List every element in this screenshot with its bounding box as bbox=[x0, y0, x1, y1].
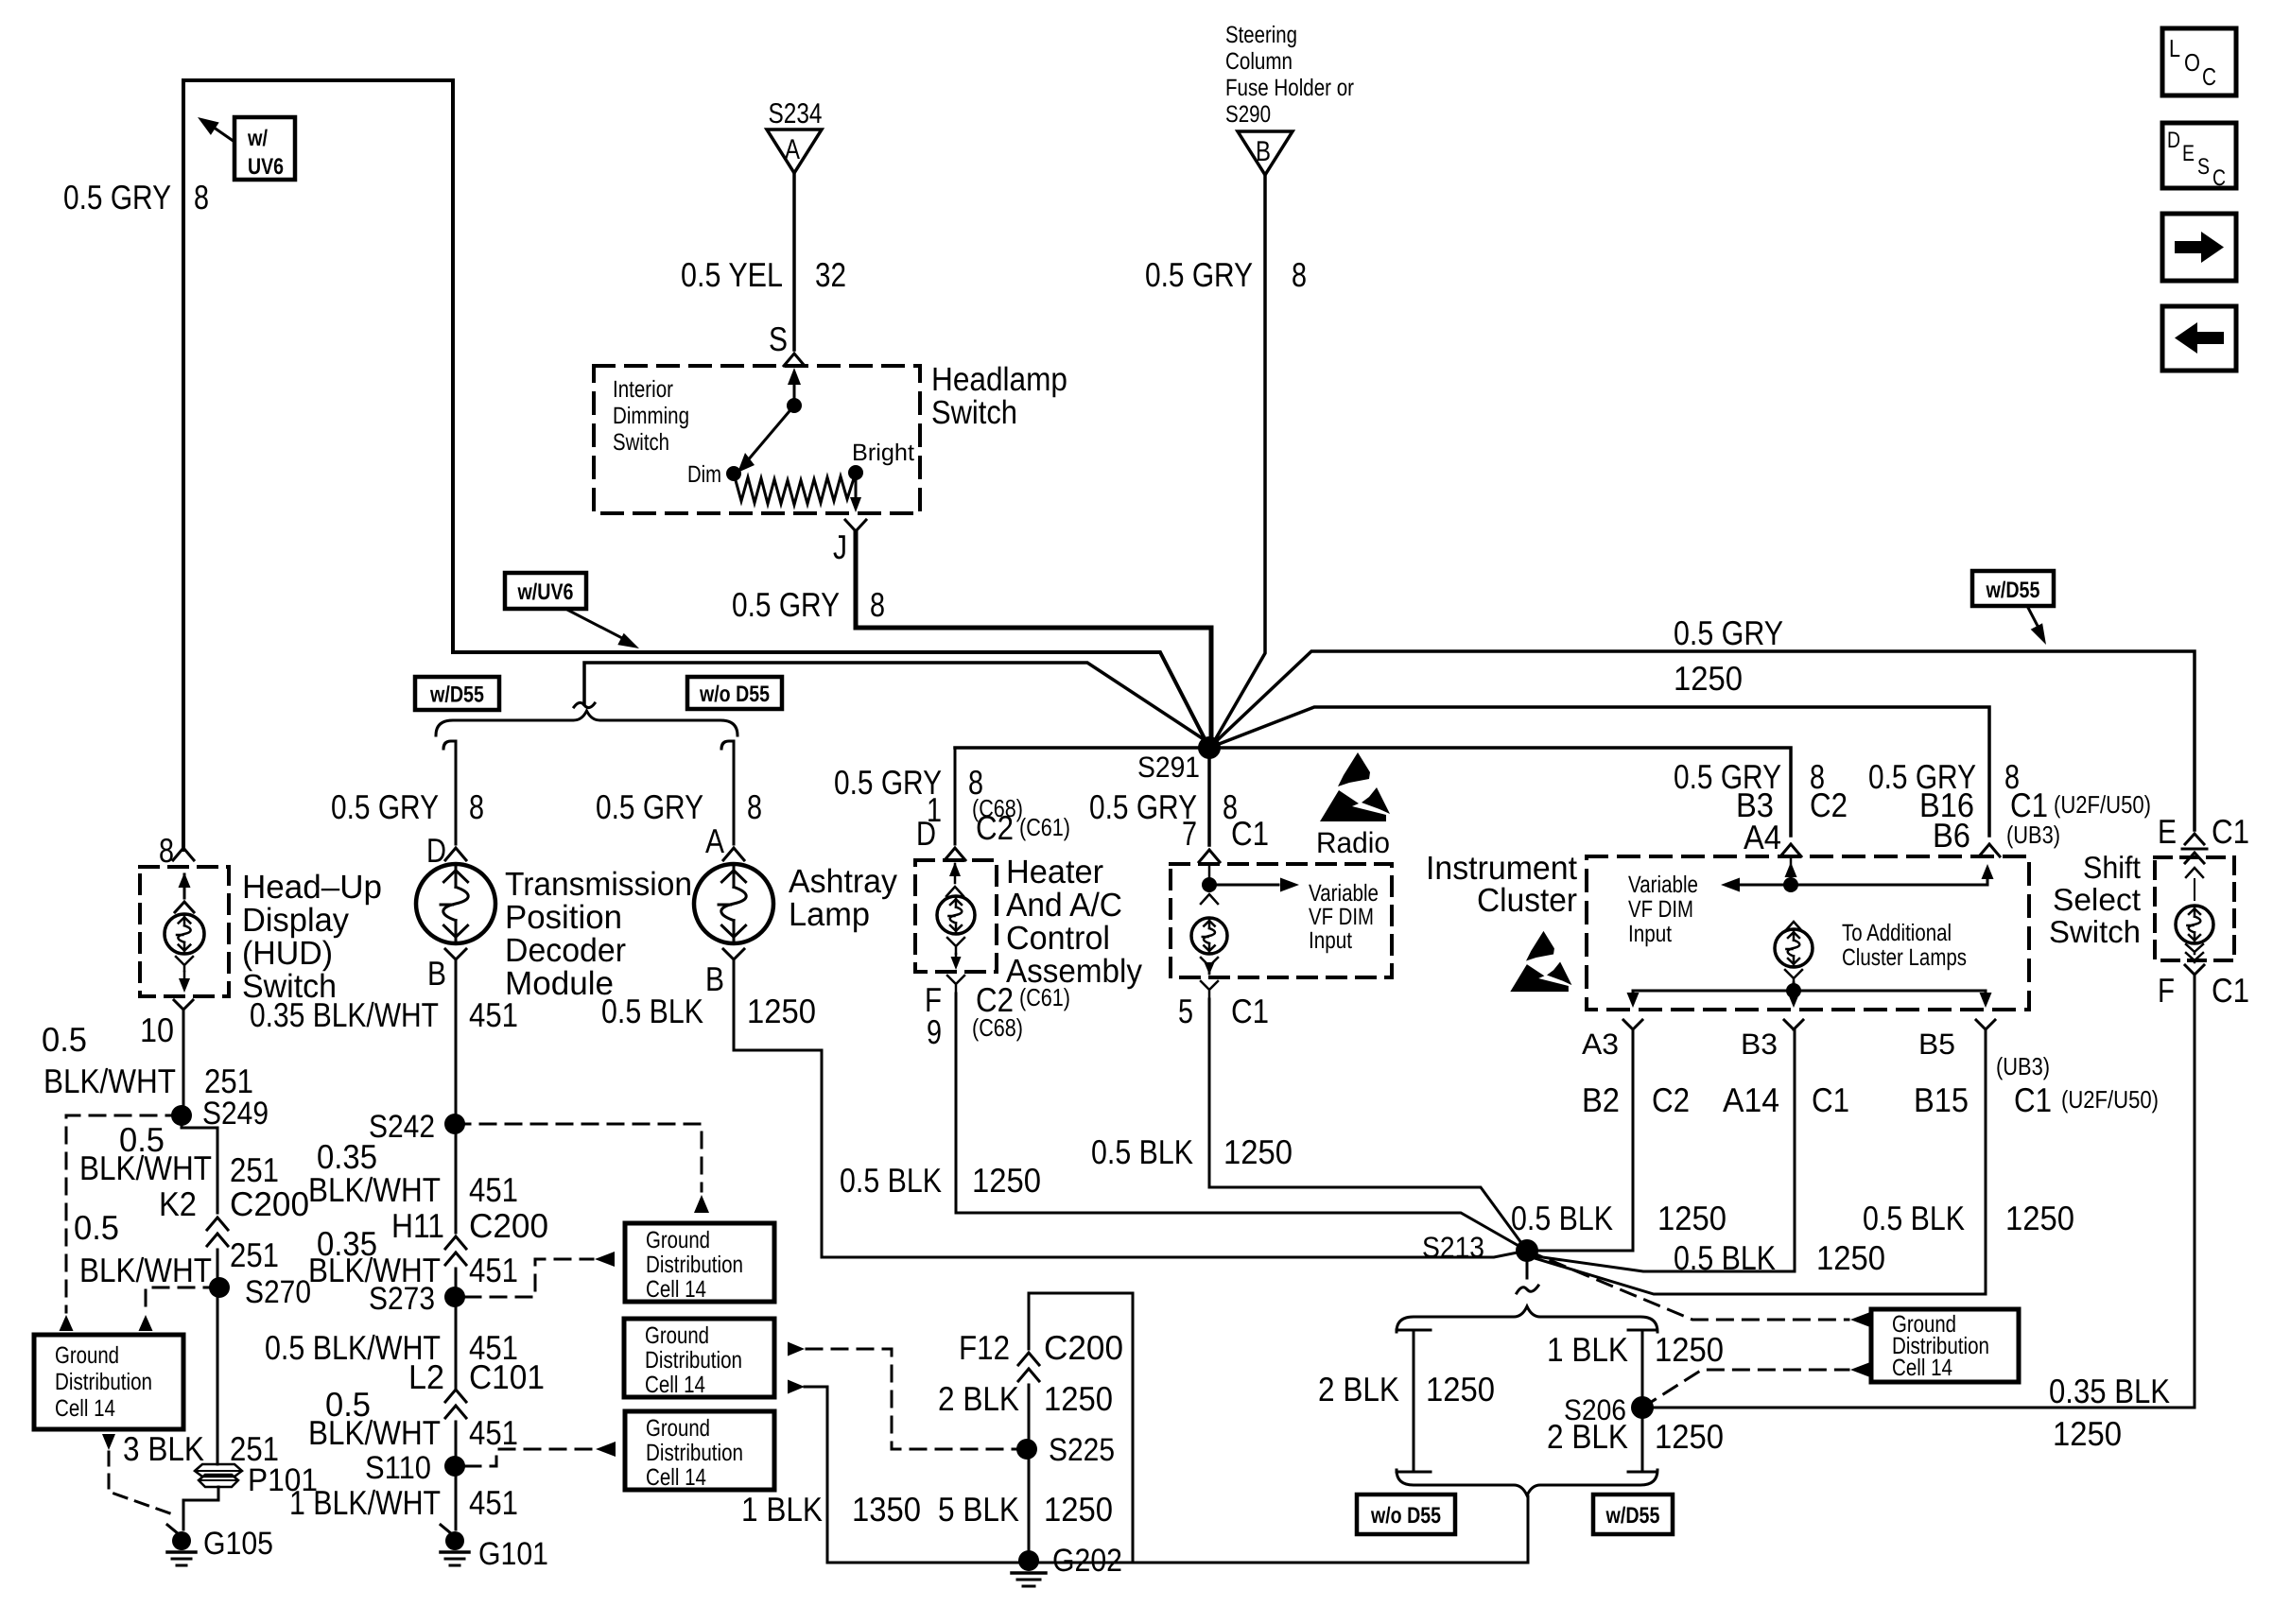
svg-text:B: B bbox=[427, 954, 446, 993]
svg-text:1250: 1250 bbox=[1816, 1238, 1885, 1277]
wire S249 to K2 C200 bbox=[182, 1115, 217, 1213]
pin 8 HUD switch bbox=[159, 831, 194, 870]
svg-text:E: E bbox=[2182, 141, 2195, 166]
svg-text:BLK/WHT: BLK/WHT bbox=[308, 1170, 441, 1209]
wire bottom bus to G202 bbox=[827, 1562, 1528, 1564]
svg-text:C2: C2 bbox=[1810, 786, 1848, 824]
ground distribution box B (F12/S225) bbox=[624, 1319, 774, 1397]
wire w/UV6 feed: HUD switch up over to S291 bbox=[183, 80, 1209, 850]
svg-text:C200: C200 bbox=[1044, 1328, 1123, 1367]
bracket 2 BLK 1250 (w/o D55) bbox=[1318, 1330, 1495, 1472]
svg-text:C1: C1 bbox=[1812, 1080, 1849, 1119]
connector H11 C200 bbox=[391, 1206, 548, 1265]
connector triangle B (steering column) bbox=[1238, 131, 1293, 175]
label Head-Up Display (HUD) Switch bbox=[242, 869, 382, 1005]
svg-text:Switch: Switch bbox=[2049, 914, 2141, 949]
wire 1 BLK 1350 from ground distribution bbox=[741, 1380, 921, 1564]
svg-text:Cell 14: Cell 14 bbox=[55, 1395, 115, 1422]
component heater and A/C control assembly bbox=[915, 860, 997, 972]
svg-text:K2: K2 bbox=[159, 1184, 197, 1223]
svg-text:5: 5 bbox=[1178, 992, 1193, 1030]
svg-text:w/D55: w/D55 bbox=[1986, 578, 2040, 603]
svg-text:0.5 BLK: 0.5 BLK bbox=[1511, 1199, 1613, 1237]
svg-text:1250: 1250 bbox=[1044, 1490, 1113, 1529]
svg-text:Variable: Variable bbox=[1309, 880, 1379, 907]
pin F C1 shift select bbox=[2158, 965, 2249, 1010]
label Ashtray Lamp bbox=[789, 863, 897, 933]
svg-text:Heater: Heater bbox=[1006, 854, 1103, 890]
svg-text:0.35 BLK: 0.35 BLK bbox=[2049, 1372, 2170, 1410]
wire dashed S206 to ground distribution bbox=[1642, 1362, 1870, 1408]
wire F12 to S225 to G202 bbox=[1028, 1385, 1031, 1561]
svg-text:0.5 BLK: 0.5 BLK bbox=[1863, 1199, 1965, 1237]
svg-text:1250: 1250 bbox=[1655, 1330, 1724, 1369]
svg-text:Select: Select bbox=[2053, 882, 2141, 917]
svg-text:451: 451 bbox=[469, 1251, 518, 1289]
connector K2 C200 bbox=[159, 1184, 309, 1246]
svg-text:B2: B2 bbox=[1582, 1080, 1620, 1119]
svg-text:2 BLK: 2 BLK bbox=[1547, 1417, 1628, 1456]
brace under 2 BLK columns bbox=[1397, 1470, 1657, 1495]
lamp TPDM bbox=[416, 864, 495, 943]
pin D TPDM bbox=[426, 831, 466, 870]
icon box arrow right bbox=[2162, 214, 2236, 281]
svg-text:w/D55: w/D55 bbox=[1605, 1503, 1660, 1529]
option box w/D55 (bottom) bbox=[1593, 1494, 1673, 1534]
svg-text:C200: C200 bbox=[469, 1206, 548, 1245]
svg-text:UV6: UV6 bbox=[248, 154, 284, 180]
wire 0.5 BLK 1250 ashtray to S213 bbox=[734, 972, 1527, 1257]
svg-text:451: 451 bbox=[469, 1413, 518, 1452]
wire 0.35 BLK 1250 shift select to S206 bbox=[1653, 977, 2195, 1408]
wire 0.5 BLK 1250 cluster B15 to S213 bbox=[1535, 1029, 1986, 1294]
svg-text:w/: w/ bbox=[247, 126, 268, 151]
svg-text:Distribution: Distribution bbox=[646, 1252, 743, 1278]
wire 0.5 GRY 8 from J to S291 (thick) bbox=[856, 531, 1211, 736]
lamp ashtray bbox=[694, 864, 773, 943]
svg-text:Ground: Ground bbox=[646, 1227, 710, 1253]
label 2 BLK 1250 (F12-S225) bbox=[938, 1379, 1113, 1418]
svg-text:BLK/WHT: BLK/WHT bbox=[79, 1149, 212, 1187]
svg-text:Switch: Switch bbox=[931, 394, 1017, 431]
wire S291 to shift select E (0.5 GRY 1250) bbox=[1209, 651, 2195, 830]
wire L2 to S110 bbox=[455, 1422, 458, 1466]
svg-text:1250: 1250 bbox=[1044, 1379, 1113, 1418]
component head-up display switch bbox=[140, 867, 229, 996]
svg-text:A14: A14 bbox=[1723, 1080, 1779, 1119]
svg-text:Cell 14: Cell 14 bbox=[645, 1372, 705, 1398]
svg-text:D: D bbox=[916, 814, 936, 853]
svg-text:1250: 1250 bbox=[1655, 1417, 1724, 1456]
wire from brace to G202 bbox=[1135, 1496, 1528, 1563]
svg-text:S: S bbox=[2197, 154, 2210, 180]
svg-text:C: C bbox=[2202, 62, 2216, 91]
label 0.5 GRY 8 (TPDM) bbox=[331, 787, 484, 826]
svg-text:Decoder: Decoder bbox=[505, 932, 626, 969]
svg-text:J: J bbox=[833, 527, 847, 566]
svg-text:w/o D55: w/o D55 bbox=[1370, 1503, 1441, 1529]
svg-text:Control: Control bbox=[1006, 920, 1110, 957]
svg-text:G101: G101 bbox=[478, 1536, 548, 1572]
svg-text:A4: A4 bbox=[1744, 818, 1781, 856]
svg-text:VF DIM: VF DIM bbox=[1309, 904, 1374, 930]
svg-text:0.5 GRY: 0.5 GRY bbox=[331, 787, 439, 826]
svg-text:H11: H11 bbox=[391, 1206, 444, 1245]
ground G101 bbox=[441, 1525, 548, 1572]
option box w/D55 (right) with arrow bbox=[1972, 571, 2054, 645]
svg-text:A: A bbox=[785, 134, 800, 165]
pin J headlamp switch bbox=[833, 520, 866, 566]
svg-text:B6: B6 bbox=[1933, 816, 1970, 855]
label 0.5 GRY 8 (HUD feed) bbox=[63, 178, 209, 216]
svg-text:32: 32 bbox=[815, 255, 846, 294]
svg-text:S290: S290 bbox=[1225, 101, 1271, 128]
svg-text:0.5 GRY: 0.5 GRY bbox=[1674, 613, 1783, 652]
svg-text:Distribution: Distribution bbox=[646, 1440, 743, 1466]
label Instrument Cluster bbox=[1426, 850, 1577, 919]
svg-text:0.5 BLK: 0.5 BLK bbox=[840, 1161, 942, 1200]
svg-text:Radio: Radio bbox=[1316, 826, 1390, 859]
svg-text:Dimming: Dimming bbox=[613, 403, 689, 429]
wire H11 to S273 bbox=[455, 1269, 458, 1297]
svg-text:1250: 1250 bbox=[1657, 1199, 1726, 1237]
svg-text:(U2F/U50): (U2F/U50) bbox=[2061, 1085, 2159, 1114]
svg-text:Input: Input bbox=[1628, 921, 1672, 947]
svg-text:9: 9 bbox=[927, 1012, 942, 1051]
pin A ashtray lamp bbox=[705, 821, 744, 860]
svg-text:5 BLK: 5 BLK bbox=[938, 1490, 1019, 1529]
ground distribution box C (S110) bbox=[625, 1411, 774, 1490]
wire S291 to cluster C2 drop bbox=[1209, 748, 1791, 836]
labels 0.5 GRY 1 8 (C68) D C2 (C61) heater bbox=[834, 763, 1070, 853]
wire drop to ashtray lamp bbox=[721, 741, 734, 844]
brace under S213 (D55 alternatives) bbox=[1397, 1306, 1657, 1332]
svg-text:Cell 14: Cell 14 bbox=[1892, 1355, 1952, 1381]
svg-text:BLK/WHT: BLK/WHT bbox=[308, 1413, 441, 1452]
svg-text:Distribution: Distribution bbox=[645, 1347, 742, 1373]
svg-text:Variable: Variable bbox=[1628, 872, 1698, 898]
svg-text:A: A bbox=[705, 821, 724, 860]
brace for D55 alternatives bbox=[436, 702, 737, 735]
svg-text:8: 8 bbox=[159, 831, 174, 870]
label Shift Select Switch bbox=[2049, 850, 2141, 949]
svg-text:Fuse Holder or: Fuse Holder or bbox=[1225, 75, 1354, 101]
svg-text:(UB3): (UB3) bbox=[2006, 821, 2060, 849]
svg-text:Shift: Shift bbox=[2083, 850, 2141, 885]
svg-text:0.5: 0.5 bbox=[42, 1020, 87, 1059]
component radio (VF dim input) bbox=[1171, 864, 1392, 977]
svg-text:(HUD): (HUD) bbox=[242, 935, 333, 972]
node S291 junction bbox=[1137, 736, 1221, 784]
svg-text:Dim: Dim bbox=[687, 461, 721, 488]
pins F 9 C2 heater bottom bbox=[925, 976, 1070, 1051]
svg-text:1250: 1250 bbox=[1223, 1132, 1293, 1171]
svg-text:C101: C101 bbox=[469, 1357, 545, 1396]
svg-text:Transmission: Transmission bbox=[505, 866, 692, 903]
label 0.5 GRY 8 (ashtray) bbox=[596, 787, 762, 826]
svg-text:1 BLK: 1 BLK bbox=[741, 1490, 823, 1529]
connector below S213 bbox=[1517, 1262, 1538, 1293]
svg-text:G202: G202 bbox=[1052, 1543, 1122, 1579]
ground G202 bbox=[1012, 1543, 1122, 1586]
connector chevron radio top bbox=[1199, 850, 1220, 862]
svg-text:0.5 GRY: 0.5 GRY bbox=[834, 763, 942, 802]
svg-text:8: 8 bbox=[1292, 255, 1307, 294]
wire loop F12 to G202 right side bbox=[1029, 1293, 1133, 1563]
node S213 junction bbox=[1422, 1231, 1538, 1264]
component headlamp switch (interior dimming switch) bbox=[594, 366, 920, 513]
label Variable VF DIM Input (radio) bbox=[1309, 880, 1379, 954]
svg-text:Interior: Interior bbox=[613, 376, 673, 403]
svg-text:F12: F12 bbox=[959, 1328, 1010, 1367]
svg-text:0.5 GRY: 0.5 GRY bbox=[1145, 255, 1253, 294]
option box w/o D55 (left) bbox=[687, 677, 782, 709]
svg-text:Column: Column bbox=[1225, 48, 1293, 75]
pins 5 C1 radio bottom bbox=[1178, 981, 1269, 1030]
svg-text:S242: S242 bbox=[369, 1109, 435, 1145]
svg-text:451: 451 bbox=[469, 1483, 518, 1522]
svg-text:8: 8 bbox=[469, 787, 484, 826]
svg-text:8: 8 bbox=[870, 585, 885, 624]
svg-text:0.5 BLK: 0.5 BLK bbox=[1091, 1132, 1193, 1171]
svg-text:VF DIM: VF DIM bbox=[1628, 896, 1693, 923]
svg-text:7: 7 bbox=[1182, 814, 1197, 853]
ground distribution box left bbox=[34, 1335, 183, 1429]
wire 1 BLK 2 BLK 1250 column through S206 (w/D55) bbox=[1628, 1330, 1657, 1472]
pin S headlamp switch bbox=[769, 320, 805, 366]
svg-text:Input: Input bbox=[1309, 927, 1352, 954]
label Headlamp Switch bbox=[931, 361, 1067, 431]
svg-text:251: 251 bbox=[230, 1150, 279, 1189]
label 3 BLK 251 with triangle bbox=[102, 1429, 279, 1468]
svg-text:A3: A3 bbox=[1582, 1028, 1619, 1061]
svg-text:0.5 GRY: 0.5 GRY bbox=[1089, 787, 1197, 826]
svg-text:B15: B15 bbox=[1914, 1080, 1969, 1119]
wire cluster lamp distribution bbox=[1627, 983, 1992, 1008]
wire dashed S249 to ground distribution bbox=[60, 1115, 182, 1331]
pin B TPDM bbox=[427, 949, 466, 993]
ground distribution box right of S213 bbox=[1871, 1309, 2019, 1382]
svg-text:Distribution: Distribution bbox=[55, 1369, 152, 1395]
svg-text:Ground: Ground bbox=[55, 1342, 119, 1369]
svg-text:E: E bbox=[2158, 812, 2177, 851]
svg-text:0.5 GRY: 0.5 GRY bbox=[732, 585, 840, 624]
node S249 junction bbox=[171, 1096, 269, 1132]
svg-text:Ashtray: Ashtray bbox=[789, 863, 897, 900]
svg-text:BLK/WHT: BLK/WHT bbox=[79, 1251, 212, 1289]
svg-text:w/o D55: w/o D55 bbox=[699, 682, 770, 707]
wire from brace to S291 bbox=[584, 663, 1209, 743]
svg-text:0.5 BLK: 0.5 BLK bbox=[601, 992, 703, 1030]
svg-text:1 BLK/WHT: 1 BLK/WHT bbox=[289, 1483, 441, 1522]
node S270 junction bbox=[209, 1274, 311, 1310]
connector chevrons cluster bottom bbox=[1623, 1020, 1995, 1029]
svg-text:3 BLK: 3 BLK bbox=[123, 1429, 204, 1468]
svg-text:451: 451 bbox=[469, 1170, 518, 1209]
ESD symbol radio bbox=[1338, 752, 1370, 786]
svg-text:B: B bbox=[1256, 136, 1271, 167]
wire 0.35 BLK/WHT 451 TPDM to S242 bbox=[455, 972, 458, 1124]
wire dashed S213 to ground distribution bbox=[1527, 1251, 1870, 1327]
connector P101 pass-through grommet bbox=[195, 1462, 318, 1498]
label 0.35 BLK/WHT 451 (S242-H11) bbox=[308, 1137, 518, 1209]
wire S291 to cluster C1 drop (B16) bbox=[1209, 707, 1989, 836]
svg-text:C1: C1 bbox=[2212, 971, 2249, 1010]
svg-text:S273: S273 bbox=[369, 1281, 435, 1317]
svg-text:Ground: Ground bbox=[645, 1322, 709, 1349]
svg-text:Head–Up: Head–Up bbox=[242, 869, 382, 906]
label 0.5 BLK/WHT 451 (L2-S110) bbox=[308, 1385, 518, 1452]
node S273 junction bbox=[369, 1281, 465, 1317]
svg-text:Position: Position bbox=[505, 899, 622, 936]
labels 0.5 GRY 8 B16 C1 B6 cluster right drop bbox=[1868, 757, 2151, 855]
svg-text:L: L bbox=[2169, 34, 2180, 62]
svg-text:2 BLK: 2 BLK bbox=[1318, 1370, 1399, 1408]
label Steering Column Fuse Holder or S290 bbox=[1225, 22, 1354, 128]
svg-text:Cluster: Cluster bbox=[1477, 882, 1577, 919]
pin 10 HUD switch bbox=[140, 1000, 193, 1049]
connector L2 C101 bbox=[408, 1357, 545, 1418]
svg-text:C1: C1 bbox=[1231, 814, 1269, 853]
svg-text:0.5 BLK: 0.5 BLK bbox=[1674, 1238, 1776, 1277]
labels 0.5 GRY 8 B3 C2 A4 cluster left drop bbox=[1674, 757, 1848, 856]
wire P101 to G105 bbox=[183, 1487, 218, 1529]
svg-text:C200: C200 bbox=[230, 1184, 309, 1223]
svg-text:Ground: Ground bbox=[646, 1415, 710, 1442]
wire drop to TPDM bbox=[443, 741, 456, 844]
pin E C1 shift select bbox=[2158, 812, 2249, 863]
svg-text:(UB3): (UB3) bbox=[1996, 1052, 2050, 1080]
label Heater And A/C Control Assembly bbox=[1006, 854, 1142, 990]
svg-text:1350: 1350 bbox=[852, 1490, 921, 1529]
wire dashed S270 to ground distribution bbox=[139, 1287, 220, 1331]
svg-text:G105: G105 bbox=[203, 1526, 273, 1562]
option box w/D55 (left) bbox=[415, 677, 499, 710]
svg-text:0.5 GRY: 0.5 GRY bbox=[596, 787, 703, 826]
svg-text:0.5 YEL: 0.5 YEL bbox=[681, 255, 783, 294]
wire 0.5 BLK 1250 cluster A14 to S213 bbox=[1536, 1029, 1795, 1271]
icon box DESC bbox=[2162, 123, 2236, 191]
label 5 BLK 1250 (S225-G202) bbox=[938, 1490, 1113, 1529]
ground G105 bbox=[167, 1525, 273, 1565]
wire dashed S273 to ground distribution bbox=[465, 1252, 615, 1297]
svg-text:B: B bbox=[705, 959, 724, 998]
node S225 junction bbox=[1016, 1432, 1115, 1468]
svg-text:Headlamp: Headlamp bbox=[931, 361, 1067, 398]
svg-text:10: 10 bbox=[140, 1011, 174, 1049]
svg-text:To Additional: To Additional bbox=[1842, 920, 1952, 946]
svg-text:251: 251 bbox=[204, 1062, 253, 1100]
wire 0.5 BLK/WHT 251 K2 to S270 bbox=[217, 1250, 219, 1287]
label To Additional Cluster Lamps bbox=[1842, 920, 1967, 971]
svg-text:S249: S249 bbox=[202, 1096, 269, 1132]
ESD symbol instrument cluster bbox=[1526, 931, 1554, 961]
svg-text:(U2F/U50): (U2F/U50) bbox=[2054, 790, 2151, 819]
svg-text:S225: S225 bbox=[1049, 1432, 1115, 1468]
svg-text:(C68): (C68) bbox=[972, 1013, 1023, 1042]
wire dashed S110 to ground distribution bbox=[465, 1442, 616, 1466]
svg-text:S213: S213 bbox=[1422, 1231, 1484, 1264]
svg-text:Module: Module bbox=[505, 965, 614, 1002]
svg-text:1250: 1250 bbox=[2053, 1414, 2122, 1453]
svg-text:BLK/WHT: BLK/WHT bbox=[43, 1062, 176, 1100]
icon box arrow left bbox=[2162, 306, 2236, 371]
svg-text:Lamp: Lamp bbox=[789, 896, 870, 933]
node S206 junction bbox=[1564, 1393, 1654, 1426]
svg-text:S270: S270 bbox=[245, 1274, 311, 1310]
wire drop to heater assembly bbox=[954, 748, 957, 844]
wire S291 down to radio bbox=[1207, 748, 1211, 845]
svg-text:C1: C1 bbox=[2010, 786, 2048, 824]
wire 0.5 BLK/WHT 251 HUD to S249 bbox=[182, 1010, 185, 1115]
svg-text:C2: C2 bbox=[1652, 1080, 1690, 1119]
option box w/o D55 (bottom) bbox=[1357, 1494, 1455, 1534]
svg-text:(C61): (C61) bbox=[1019, 813, 1070, 841]
svg-text:Display: Display bbox=[242, 902, 349, 939]
wire 0.5 YEL 32 from S234 to headlamp switch bbox=[792, 173, 796, 350]
label 1 BLK 1250 bbox=[1547, 1330, 1724, 1369]
option box w/UV6 (mid) bbox=[505, 573, 639, 648]
label 2 BLK 1250 (S206) bbox=[1547, 1417, 1724, 1456]
svg-text:1 BLK: 1 BLK bbox=[1547, 1330, 1628, 1369]
node S110 junction bbox=[365, 1450, 465, 1486]
wire S242 to H11 bbox=[455, 1124, 458, 1233]
wire 0.5 BLK 1250 cluster A3/B2 to S213 bbox=[1538, 1029, 1633, 1251]
svg-text:Switch: Switch bbox=[242, 968, 337, 1005]
label 0.5 BLK/WHT 451 (S273-L2) bbox=[265, 1328, 518, 1367]
svg-text:And A/C: And A/C bbox=[1006, 887, 1122, 924]
svg-text:(C61): (C61) bbox=[1019, 983, 1070, 1011]
svg-text:0.5 GRY: 0.5 GRY bbox=[63, 178, 171, 216]
label Transmission Position Decoder Module bbox=[505, 866, 692, 1002]
svg-text:Cell 14: Cell 14 bbox=[646, 1276, 706, 1303]
svg-text:Bright: Bright bbox=[852, 440, 914, 466]
svg-text:Cluster Lamps: Cluster Lamps bbox=[1842, 944, 1967, 971]
wire dashed 3 BLK to ground wire bbox=[109, 1452, 170, 1513]
svg-text:S110: S110 bbox=[365, 1450, 431, 1486]
wire S273 to L2 bbox=[455, 1297, 458, 1388]
ground distribution box A (S242/S273) bbox=[625, 1223, 774, 1302]
wire 0.5 BLK 1250 heater to S213 bbox=[956, 993, 1527, 1251]
svg-text:Steering: Steering bbox=[1225, 22, 1297, 48]
pins B2 C2 A14 C1 B15 C1 cluster bottom row2 bbox=[1582, 1080, 2159, 1119]
option box w/UV6 (top left) bbox=[198, 117, 295, 180]
pins A3 B3 B5 cluster bottom row1 bbox=[1582, 1028, 2050, 1080]
svg-text:1250: 1250 bbox=[2005, 1199, 2074, 1237]
component shift select switch bbox=[2155, 857, 2234, 962]
component instrument cluster box bbox=[1587, 856, 2029, 1010]
svg-text:1250: 1250 bbox=[747, 992, 816, 1030]
svg-text:C: C bbox=[2212, 165, 2226, 191]
lamp cluster bbox=[1775, 922, 1813, 982]
node S242 junction bbox=[369, 1109, 465, 1145]
connector triangle A (S234) bbox=[767, 98, 823, 173]
svg-text:w/UV6: w/UV6 bbox=[517, 579, 574, 605]
svg-text:O: O bbox=[2184, 48, 2200, 77]
label 0.35 BLK/WHT 451 (H11-S273) bbox=[308, 1224, 518, 1289]
svg-text:8: 8 bbox=[194, 178, 209, 216]
svg-text:1250: 1250 bbox=[1674, 659, 1743, 698]
svg-text:0.5: 0.5 bbox=[74, 1208, 119, 1247]
connector chevrons cluster top bbox=[1780, 844, 2000, 856]
svg-text:w/D55: w/D55 bbox=[429, 682, 484, 708]
label 1 BLK/WHT 451 bbox=[289, 1483, 518, 1522]
wire S291 horizontal to heater drop bbox=[955, 746, 1209, 750]
svg-text:1250: 1250 bbox=[972, 1161, 1041, 1200]
wire S110 to G101 bbox=[455, 1466, 458, 1529]
labels 0.5 GRY 8 7 C1 radio bbox=[1089, 787, 1269, 853]
svg-text:C1: C1 bbox=[2014, 1080, 2052, 1119]
